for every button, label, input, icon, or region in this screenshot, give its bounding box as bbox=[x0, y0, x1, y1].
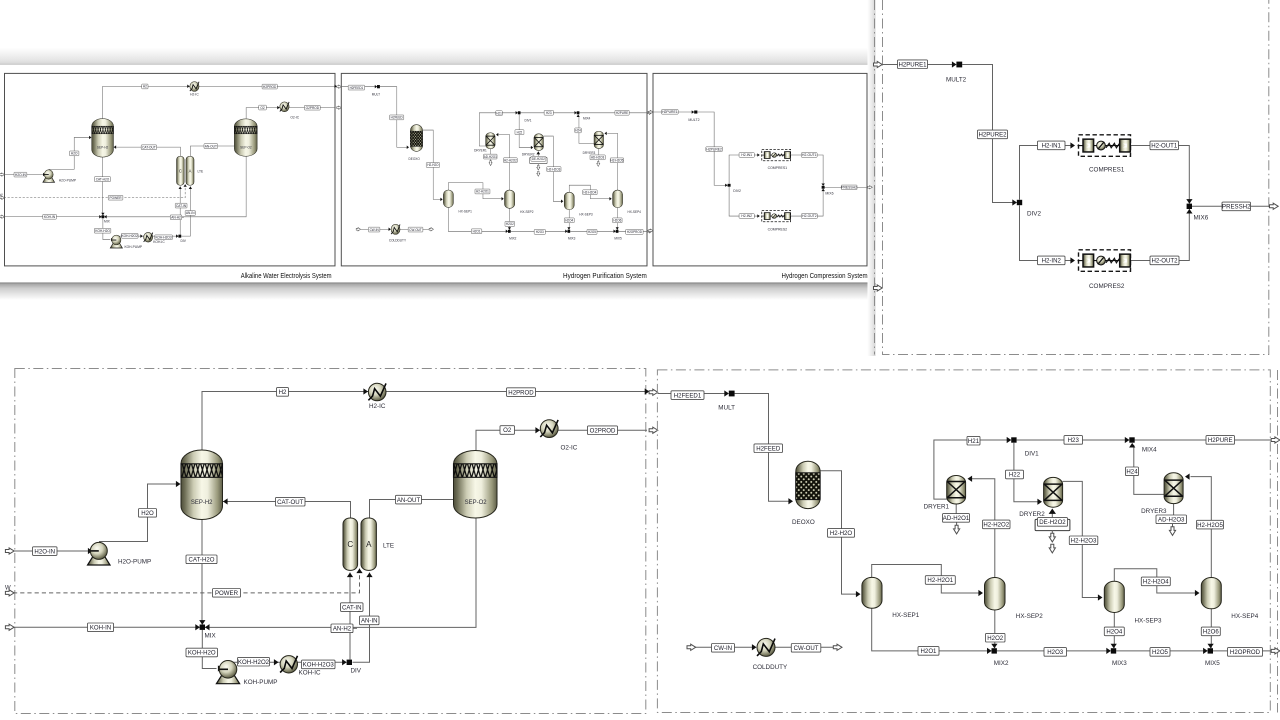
svg-text:Hydrogen Purification System: Hydrogen Purification System bbox=[563, 271, 647, 280]
hierarchy box Hydrogen Compression System bbox=[653, 73, 867, 266]
svg-text:Hydrogen Compression System: Hydrogen Compression System bbox=[782, 271, 868, 280]
COMP hierarchy panel dashed border bbox=[883, 0, 1269, 355]
compression window left drop shadow bbox=[868, 0, 876, 356]
hierarchy box Alkaline Water Electrolysis System bbox=[5, 73, 336, 266]
hierarchy box Hydrogen Purification System bbox=[341, 73, 647, 266]
AWE hierarchy panel dashed border bbox=[15, 369, 646, 714]
top window drop shadow lower bbox=[0, 283, 876, 300]
top overview window bbox=[0, 65, 872, 284]
svg-text:Alkaline Water Electrolysis Sy: Alkaline Water Electrolysis System bbox=[241, 271, 332, 280]
extra window border right bbox=[1277, 370, 1279, 713]
HP hierarchy panel dashed border bbox=[657, 370, 1270, 713]
top window drop shadow upper bbox=[0, 48, 872, 65]
extra window border left bbox=[874, 0, 876, 355]
